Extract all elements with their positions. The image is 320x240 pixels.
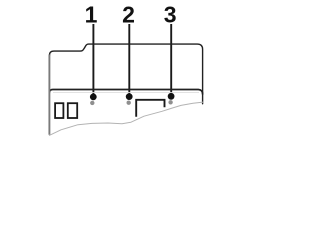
callout 2 endpoint dot	[126, 93, 133, 100]
faint highlight line under front edge	[53, 91, 199, 93]
svg-text:1: 1	[85, 2, 98, 28]
callout leader line 3	[170, 24, 172, 96]
callout 2 shadow dot	[127, 101, 131, 105]
device front-top edge	[49, 90, 202, 95]
middle recess rectangle (open at bottom, cut by torn edge)	[136, 100, 164, 117]
callout 3 shadow dot	[168, 100, 172, 104]
callout leader line 1	[92, 24, 94, 97]
callout 1 shadow dot	[90, 101, 94, 105]
torn break edge	[49, 102, 203, 136]
callout leader line 2	[128, 24, 130, 97]
port rectangle left	[55, 103, 63, 118]
callout 1 endpoint dot	[90, 94, 97, 101]
port rectangle right	[68, 103, 77, 118]
device left edge	[48, 55, 50, 135]
callout 3 endpoint dot	[168, 93, 175, 100]
svg-text:3: 3	[164, 2, 177, 28]
svg-text:2: 2	[122, 2, 135, 28]
device top-left tab, rear edge and right edge	[49, 44, 202, 104]
